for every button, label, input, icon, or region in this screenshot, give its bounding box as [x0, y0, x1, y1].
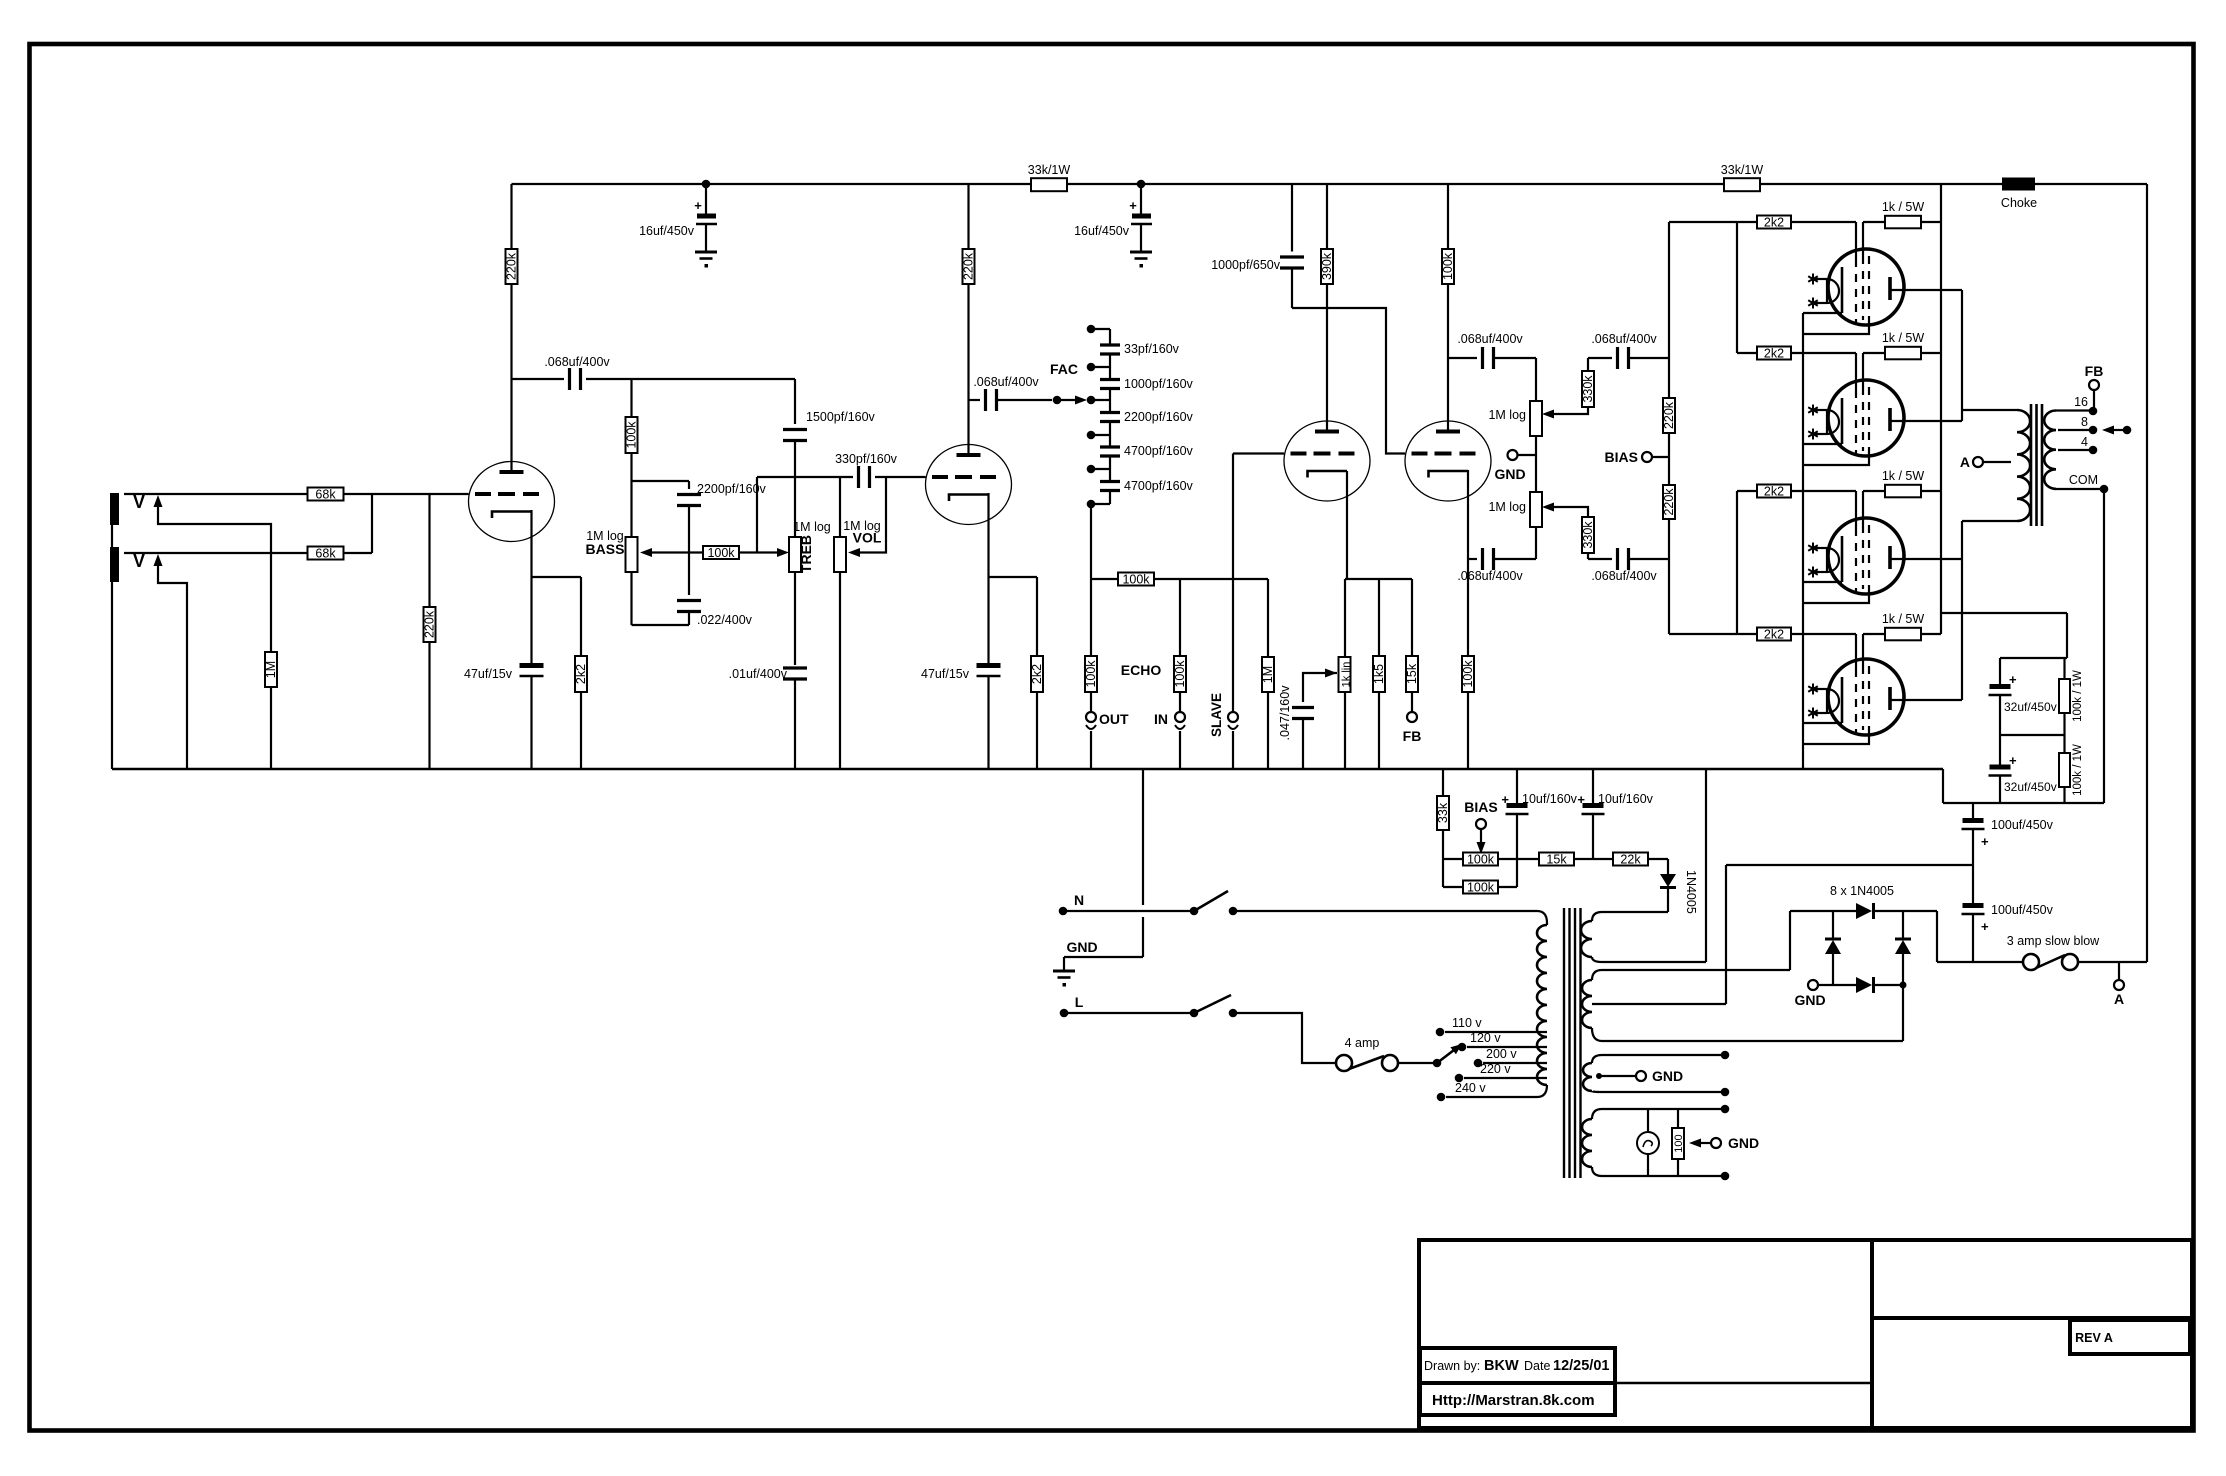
- svg-text:BKW: BKW: [1484, 1358, 1519, 1374]
- svg-text:33k: 33k: [1436, 802, 1450, 823]
- wire B+ rail: [512, 183, 2148, 185]
- wire jack ground to bus: [111, 500, 113, 769]
- resistor 220k (V1 grid leak): [423, 494, 437, 769]
- wire filter midpoint: [2000, 734, 2065, 736]
- resistor 22k (bias): [1613, 852, 1668, 866]
- capacitor 33pf/160v (FAC): [1100, 342, 1180, 356]
- resistor 330k (upper): [1581, 358, 1612, 407]
- svg-text:220k: 220k: [505, 252, 519, 280]
- svg-text:15k: 15k: [1546, 852, 1567, 866]
- svg-text:68k: 68k: [315, 546, 336, 560]
- capacitor .068uf/400v (lower bias feed): [1591, 548, 1669, 583]
- triode V3: [1233, 421, 1370, 501]
- svg-text:2200pf/160v: 2200pf/160v: [1124, 410, 1194, 424]
- resistor 100k (tone mid): [703, 546, 789, 560]
- node junction 16uf-1: [702, 180, 711, 189]
- resistor 100k (V4 cathode load): [1461, 559, 1475, 769]
- svg-text:330k: 330k: [1581, 375, 1595, 403]
- wire tone top stub: [632, 481, 690, 489]
- svg-text:SLAVE: SLAVE: [1209, 693, 1224, 737]
- svg-text:16: 16: [2074, 395, 2088, 409]
- FAC cap chain wire: [1109, 329, 1111, 504]
- potentiometer 1M log VOL: [834, 477, 886, 769]
- svg-text:BIAS: BIAS: [1464, 799, 1497, 815]
- svg-text:Http://Marstran.8k.com: Http://Marstran.8k.com: [1432, 1392, 1595, 1409]
- resistor 100k (echo in): [1173, 579, 1187, 712]
- transformer PT bias winding: [1581, 769, 1706, 962]
- ECHO IN jack: [1154, 711, 1185, 769]
- svg-text:100k: 100k: [1441, 252, 1455, 280]
- svg-text:FB: FB: [2085, 363, 2104, 379]
- SLAVE jack line: [1209, 454, 1238, 770]
- svg-text:Choke: Choke: [2001, 196, 2037, 210]
- capacitor 100uf/450v (lower): [1962, 865, 2054, 962]
- FB terminal (OT): [2085, 363, 2104, 411]
- node junction 16uf-2: [1137, 180, 1146, 189]
- terminal A (B+ to OT): [2114, 962, 2124, 1007]
- resistor 100k (bias divider upper): [1443, 852, 1517, 866]
- resistor 2k2 (grid stopper 1): [1757, 215, 1856, 229]
- pentode output tube 4: [1803, 634, 1904, 744]
- svg-text:100k / 1W: 100k / 1W: [2072, 670, 2084, 722]
- resistor 100 (heater balance): [1672, 1109, 1685, 1176]
- svg-text:100k: 100k: [1467, 852, 1495, 866]
- svg-text:+: +: [694, 198, 702, 213]
- capacitor 1500pf/160v: [783, 379, 876, 537]
- resistor 1k/5W (screen 1): [1863, 200, 1941, 228]
- resistor 2k2 (V1 cathode): [574, 656, 588, 769]
- pilot lamp: [1637, 1109, 1659, 1176]
- wire HT center tap line: [1726, 864, 1973, 866]
- svg-text:16uf/450v: 16uf/450v: [639, 224, 695, 238]
- FAC label: [1050, 361, 1078, 377]
- wire V2 cathode to 2k2: [989, 577, 1038, 656]
- wire output grid feed lower: [1669, 491, 1757, 634]
- svg-text:1k5: 1k5: [1372, 664, 1386, 684]
- input jack 1: [110, 492, 145, 525]
- svg-text:15k: 15k: [1405, 663, 1419, 684]
- resistor 68k (input 2): [308, 546, 344, 560]
- wire plate tube 3: [1890, 558, 1962, 560]
- capacitor .068uf/400v (V1 coupling): [512, 355, 796, 390]
- capacitor .068uf/400v (upper coupling): [1448, 332, 1536, 401]
- terminal N: [1059, 892, 1194, 915]
- svg-text:1000pf/160v: 1000pf/160v: [1124, 377, 1194, 391]
- jack1 switch arrow: [154, 495, 272, 553]
- capacitor .068uf/400v (upper bias feed): [1591, 332, 1669, 369]
- svg-text:16uf/450v: 16uf/450v: [1074, 224, 1130, 238]
- mains voltage selector: [1433, 1044, 1462, 1067]
- svg-text:8 x 1N4005: 8 x 1N4005: [1830, 884, 1894, 898]
- wire FAC to mixer: [1090, 504, 1092, 656]
- resistor 68k (input 1): [308, 487, 344, 501]
- svg-text:+: +: [1981, 834, 1989, 849]
- wire plate rail upper pair: [1962, 290, 2017, 421]
- wire HT center tap: [1592, 865, 1726, 1004]
- heater GND arrow: [1689, 1135, 1759, 1151]
- svg-text:.047/160v: .047/160v: [1278, 685, 1292, 741]
- svg-text:100k: 100k: [1461, 660, 1475, 688]
- resistor 1k5: [1372, 579, 1386, 769]
- svg-text:REV A: REV A: [2075, 1331, 2113, 1345]
- svg-text:3 amp slow blow: 3 amp slow blow: [2007, 934, 2100, 948]
- svg-text:220k: 220k: [1662, 401, 1676, 429]
- tap 200v: [1474, 1047, 1547, 1067]
- svg-text:100k: 100k: [625, 421, 639, 449]
- svg-text:GND: GND: [1066, 939, 1097, 955]
- svg-text:2k2: 2k2: [1764, 627, 1784, 641]
- svg-text:.01uf/400v: .01uf/400v: [729, 667, 788, 681]
- svg-text:4 amp: 4 amp: [1345, 1036, 1380, 1050]
- terminal L: [1060, 994, 1194, 1017]
- svg-text:FAC: FAC: [1050, 361, 1078, 377]
- transformer PT HT winding: [1582, 970, 1903, 1041]
- potentiometer 1k lin (presence): [1339, 579, 1353, 769]
- wire 68k outputs to V1 grid: [344, 494, 469, 553]
- heater winding 1 center tap GND: [1596, 1068, 1683, 1084]
- svg-text:220 v: 220 v: [1480, 1062, 1511, 1076]
- svg-text:1k / 5W: 1k / 5W: [1882, 200, 1925, 214]
- potentiometer 1M log BASS: [586, 529, 704, 625]
- svg-text:1k / 5W: 1k / 5W: [1882, 612, 1925, 626]
- capacitor .068uf/400v (V2 out): [969, 375, 1053, 411]
- svg-text:68k: 68k: [315, 487, 336, 501]
- capacitor 32uf/450v (upper): [1989, 658, 2057, 735]
- svg-text:8: 8: [2081, 415, 2088, 429]
- svg-text:240 v: 240 v: [1455, 1081, 1486, 1095]
- triode V1: [469, 462, 555, 542]
- resistor 15k (feedback): [1405, 579, 1419, 712]
- transformer PT heater winding 1: [1583, 1051, 1729, 1097]
- resistor 390k (V3 plate): [1320, 184, 1334, 432]
- ECHO label: [1121, 662, 1162, 678]
- svg-text:1k / 5W: 1k / 5W: [1882, 469, 1925, 483]
- potentiometer 1M log (lower master): [1488, 492, 1588, 559]
- node A (OT center tap): [1960, 454, 2011, 470]
- resistor 1M (input load): [264, 553, 278, 769]
- svg-text:100k / 1W: 100k / 1W: [2072, 744, 2084, 796]
- svg-text:1500pf/160v: 1500pf/160v: [806, 410, 876, 424]
- svg-text:2k2: 2k2: [574, 664, 588, 684]
- tap 110v: [1436, 1016, 1547, 1036]
- svg-text:IN: IN: [1154, 711, 1168, 727]
- tap 120v: [1458, 1031, 1547, 1051]
- wire V2 plate: [967, 284, 969, 455]
- diode bridge left: [1825, 911, 1841, 985]
- svg-text:220k: 220k: [1662, 488, 1676, 516]
- svg-text:1M log: 1M log: [1488, 408, 1526, 422]
- capacitor 1000pf/650v: [1211, 184, 1304, 308]
- svg-text:100k: 100k: [707, 546, 735, 560]
- capacitor 16uf/450v (first) with ground: [639, 184, 717, 268]
- capacitor 2200pf/160v: [677, 482, 767, 595]
- pentode output tube 2: [1803, 353, 1904, 465]
- resistor 330k (lower): [1581, 517, 1612, 559]
- svg-text:BASS: BASS: [586, 541, 625, 557]
- resistor 220k (bias upper): [1662, 222, 1676, 485]
- resistor 220k (bias lower): [1662, 485, 1676, 634]
- pentode output tube 3: [1803, 491, 1904, 603]
- capacitor 4700pf/160v (FAC lower): [1100, 479, 1194, 493]
- capacitor .047/160v (presence): [1278, 669, 1337, 770]
- resistor 33k/1W (first): [1028, 163, 1071, 191]
- resistor 100k/1W (lower bleeder): [2059, 735, 2084, 803]
- OT tap 4: [2058, 435, 2097, 454]
- potentiometer 1M log (upper master): [1488, 401, 1588, 492]
- resistor 100k (bias divider lower): [1443, 859, 1517, 894]
- wire plate rail lower pair: [1962, 521, 2017, 700]
- capacitor 10uf/160v (bias filter 1): [1501, 769, 1577, 859]
- svg-text:100k: 100k: [1122, 572, 1150, 586]
- wire V3 plate to V4 grid: [1292, 308, 1405, 454]
- resistor 2k2 (V2 cathode): [1030, 656, 1044, 769]
- wire V1 cathode to 2k2: [532, 577, 582, 656]
- capacitor 330pf/160v: [835, 452, 898, 488]
- svg-text:32uf/450v: 32uf/450v: [2004, 780, 2057, 794]
- diode bridge top: [1856, 903, 1937, 919]
- svg-text:32uf/450v: 32uf/450v: [2004, 700, 2057, 714]
- resistor 1k/5W (screen 3): [1863, 469, 1941, 497]
- transformer PT primary: [1446, 911, 1547, 1097]
- resistor 220k (V1 plate): [505, 184, 519, 284]
- resistor 1k/5W (screen 2): [1863, 331, 1941, 359]
- svg-text:FB: FB: [1403, 728, 1422, 744]
- capacitor 1000pf/160v (FAC): [1100, 377, 1194, 391]
- capacitor 47uf/15v (V2 cathode): [921, 666, 1000, 770]
- transformer OT secondary: [2044, 411, 2056, 489]
- svg-text:N: N: [1074, 892, 1084, 908]
- svg-text:COM: COM: [2069, 473, 2098, 487]
- wire bridge output: [1936, 911, 1938, 962]
- svg-text:10uf/160v: 10uf/160v: [1522, 792, 1578, 806]
- svg-text:.068uf/400v: .068uf/400v: [1457, 332, 1523, 346]
- svg-text:.068uf/400v: .068uf/400v: [1591, 569, 1657, 583]
- svg-text:2k2: 2k2: [1764, 215, 1784, 229]
- diode bridge bottom: [1856, 977, 1907, 993]
- svg-text:.068uf/400v: .068uf/400v: [973, 375, 1039, 389]
- svg-text:ECHO: ECHO: [1121, 662, 1162, 678]
- switch mains L: [1190, 995, 1336, 1063]
- svg-text:.068uf/400v: .068uf/400v: [1591, 332, 1657, 346]
- svg-text:100k: 100k: [1084, 660, 1098, 688]
- svg-text:.068uf/400v: .068uf/400v: [1457, 569, 1523, 583]
- wire input 2 line: [124, 552, 307, 554]
- FB jack: [1403, 712, 1422, 744]
- capacitor 16uf/450v (second) with ground: [1074, 184, 1152, 268]
- svg-text:100k: 100k: [1467, 880, 1495, 894]
- svg-text:100uf/450v: 100uf/450v: [1991, 818, 2054, 832]
- fuse 4 amp: [1336, 1036, 1437, 1071]
- svg-text:Date: Date: [1524, 1359, 1550, 1373]
- svg-text:.022/400v: .022/400v: [697, 613, 753, 627]
- transformer PT heater winding 2: [1582, 1105, 1729, 1181]
- triode V2: [926, 445, 1012, 525]
- potentiometer 1M log TREB: [789, 520, 831, 665]
- tap 220v: [1455, 1062, 1547, 1082]
- resistor 33k (bias dropper): [1436, 769, 1450, 859]
- svg-text:33k/1W: 33k/1W: [1721, 163, 1764, 177]
- svg-text:+: +: [1981, 919, 1989, 934]
- pentode output tube 1: [1803, 222, 1904, 334]
- resistor 100k (mixer series): [1091, 572, 1268, 586]
- svg-text:TREB: TREB: [798, 535, 814, 573]
- jack2 switch arrow: [154, 554, 188, 769]
- tap 240v: [1437, 1081, 1487, 1101]
- svg-text:200 v: 200 v: [1486, 1047, 1517, 1061]
- diode bridge right: [1895, 911, 1911, 1041]
- svg-text:33k/1W: 33k/1W: [1028, 163, 1071, 177]
- wire input 1 line: [124, 493, 307, 495]
- resistor 2k2 (grid stopper 2): [1757, 346, 1856, 360]
- wire filter bottom / ground extension: [1943, 769, 2104, 803]
- wire main ground bus: [112, 768, 1943, 770]
- svg-text:A: A: [1960, 454, 1970, 470]
- svg-text:22k: 22k: [1620, 852, 1641, 866]
- svg-text:330k: 330k: [1581, 521, 1595, 549]
- capacitor .068uf/400v (lower coupling): [1457, 548, 1536, 583]
- capacitor 10uf/160v (bias filter 2): [1577, 769, 1653, 859]
- BIAS jack: [1605, 449, 1669, 465]
- wire plate tube 1: [1890, 289, 1962, 291]
- title block drawn-by box: [1420, 1348, 1615, 1383]
- wire plate tube 2: [1890, 420, 1962, 422]
- chassis ground: [1053, 769, 1143, 987]
- wire bridge AC1: [1790, 911, 1856, 970]
- title block: [1419, 1240, 2192, 1428]
- OT tap COM: [2056, 473, 2108, 803]
- resistor 1M (PI grid leak): [1261, 579, 1275, 769]
- svg-text:2k2: 2k2: [1030, 664, 1044, 684]
- wire B+ rail right drop: [2146, 184, 2148, 962]
- svg-text:33pf/160v: 33pf/160v: [1124, 342, 1180, 356]
- input jack 2: [110, 547, 145, 582]
- resistor 33k/1W (second): [1721, 163, 1764, 191]
- wire screen node to filter: [1941, 613, 2067, 658]
- svg-text:12/25/01: 12/25/01: [1553, 1358, 1609, 1374]
- svg-text:1N4005: 1N4005: [1684, 870, 1698, 914]
- svg-text:4700pf/160v: 4700pf/160v: [1124, 444, 1194, 458]
- svg-text:OUT: OUT: [1099, 711, 1129, 727]
- transformer OT core: [2031, 404, 2042, 526]
- resistor 15k (bias): [1517, 852, 1613, 866]
- triode V4: [1405, 421, 1491, 501]
- svg-text:+: +: [1129, 198, 1137, 213]
- svg-text:330pf/160v: 330pf/160v: [835, 452, 898, 466]
- svg-text:L: L: [1075, 994, 1084, 1010]
- svg-text:100k: 100k: [1173, 660, 1187, 688]
- svg-text:220k: 220k: [962, 252, 976, 280]
- wire V3 cathode network: [1345, 471, 1412, 579]
- svg-text:4: 4: [2081, 435, 2088, 449]
- svg-text:1000pf/650v: 1000pf/650v: [1211, 258, 1281, 272]
- resistor 100k (V4 plate): [1441, 184, 1455, 432]
- svg-text:10uf/160v: 10uf/160v: [1598, 792, 1654, 806]
- OT tap 16: [2056, 395, 2097, 415]
- svg-text:1M log: 1M log: [793, 520, 831, 534]
- svg-text:2k2: 2k2: [1764, 346, 1784, 360]
- wire output grid feed upper: [1669, 222, 1757, 353]
- svg-text:390k: 390k: [1320, 252, 1334, 280]
- svg-text:47uf/15v: 47uf/15v: [921, 667, 970, 681]
- capacitor .01uf/400v: [729, 667, 807, 769]
- capacitor 4700pf/160v (FAC upper): [1100, 444, 1194, 458]
- GND jack (master volume center): [1494, 450, 1536, 482]
- resistor 100k (tone slope): [625, 379, 639, 537]
- fuse 3 amp slow blow: [1937, 934, 2147, 970]
- wire cathode bus (output tubes): [1802, 313, 1804, 769]
- transformer OT primary: [2017, 410, 2030, 521]
- svg-text:1M: 1M: [1261, 666, 1275, 683]
- ECHO OUT jack: [1086, 711, 1129, 769]
- OT tap 8 with speaker arrow: [2058, 415, 2131, 435]
- node FAC wiper: [1053, 396, 1087, 405]
- diode 1N4005 (bias rectifier): [1660, 859, 1698, 914]
- wire V4 cathode: [1467, 470, 1469, 559]
- svg-text:1k / 5W: 1k / 5W: [1882, 331, 1925, 345]
- svg-text:GND: GND: [1794, 992, 1825, 1008]
- wire V2 cathode: [987, 493, 989, 664]
- capacitor 32uf/450v (lower): [1989, 735, 2057, 803]
- svg-text:VOL: VOL: [853, 530, 882, 546]
- svg-text:1M log: 1M log: [1488, 500, 1526, 514]
- svg-text:100: 100: [1673, 1134, 1685, 1152]
- title block REV A box: [2070, 1320, 2190, 1354]
- svg-text:A: A: [2114, 991, 2124, 1007]
- choke: [2001, 178, 2037, 211]
- capacitor 100uf/450v (upper): [1962, 803, 2054, 865]
- svg-text:2k2: 2k2: [1764, 484, 1784, 498]
- svg-text:GND: GND: [1494, 466, 1525, 482]
- resistor 1k/5W (screen 4): [1863, 612, 1941, 640]
- capacitor 2200pf/160v (FAC): [1100, 410, 1194, 424]
- switch mains N: [1190, 891, 1537, 915]
- transformer PT core: [1564, 908, 1581, 1178]
- title block URL box: [1420, 1383, 1615, 1415]
- wire treble line: [757, 477, 926, 553]
- capacitor 47uf/15v (V1 cathode): [464, 666, 543, 770]
- resistor 2k2 (grid stopper 4): [1757, 627, 1856, 641]
- label 8 x 1N4005: [1830, 884, 1894, 898]
- svg-text:GND: GND: [1728, 1135, 1759, 1151]
- wire screen rail: [1940, 184, 1942, 634]
- svg-text:120 v: 120 v: [1470, 1031, 1501, 1045]
- resistor 2k2 (grid stopper 3): [1757, 484, 1856, 498]
- svg-text:47uf/15v: 47uf/15v: [464, 667, 513, 681]
- resistor 100k/1W (upper bleeder): [2059, 658, 2084, 735]
- bridge GND terminal: [1794, 980, 1856, 1008]
- svg-text:Drawn by:: Drawn by:: [1424, 1359, 1480, 1373]
- wire V1 plate: [510, 284, 512, 472]
- capacitor .022/400v: [677, 601, 753, 628]
- svg-text:1M: 1M: [264, 661, 278, 678]
- resistor 100k (echo out): [1084, 656, 1098, 712]
- resistor 220k (V2 plate): [962, 184, 976, 284]
- BIAS test point: [1464, 799, 1497, 854]
- FAC tap nodes: [1087, 325, 1110, 509]
- svg-text:4700pf/160v: 4700pf/160v: [1124, 479, 1194, 493]
- svg-text:BIAS: BIAS: [1605, 449, 1638, 465]
- svg-text:GND: GND: [1652, 1068, 1683, 1084]
- svg-text:110 v: 110 v: [1452, 1016, 1482, 1030]
- wire V1 cathode: [530, 510, 532, 664]
- svg-text:100uf/450v: 100uf/450v: [1991, 903, 2054, 917]
- svg-text:1k lin: 1k lin: [1341, 662, 1353, 688]
- svg-text:.068uf/400v: .068uf/400v: [544, 355, 610, 369]
- svg-text:220k: 220k: [423, 610, 437, 638]
- wire plate tube 4: [1890, 699, 1962, 701]
